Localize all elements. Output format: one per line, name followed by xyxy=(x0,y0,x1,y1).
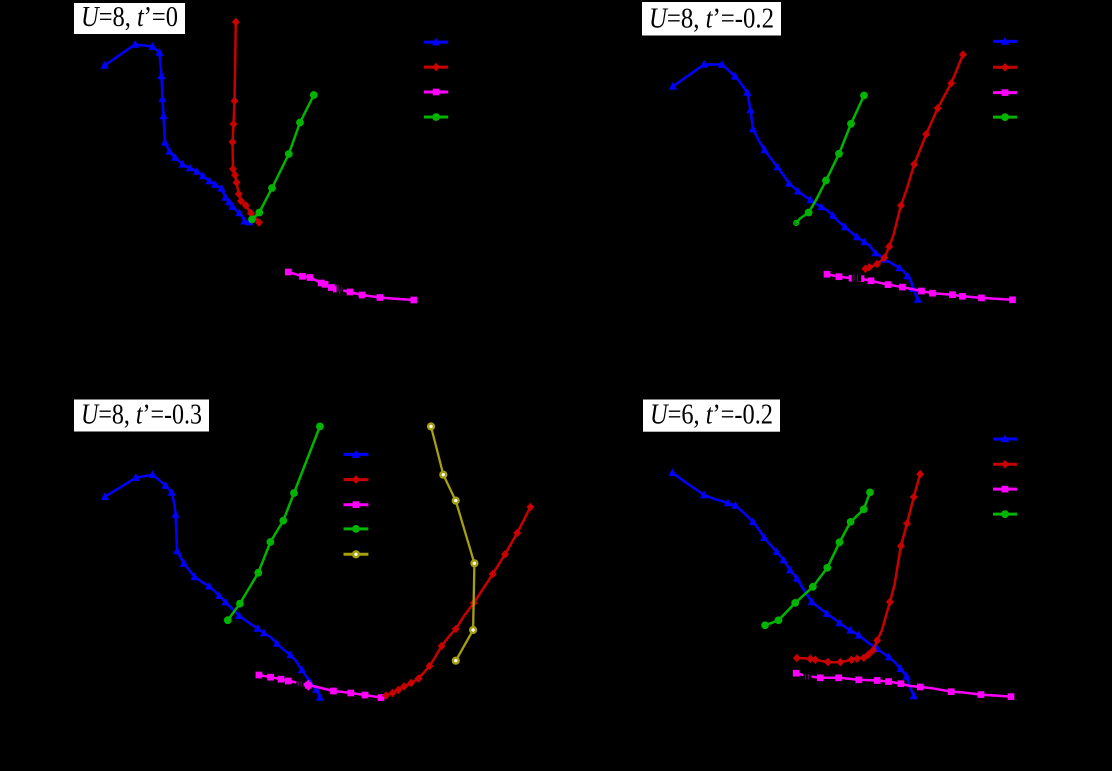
panel4 blue curve xyxy=(673,473,914,696)
panel2 legend magenta xyxy=(993,91,1017,94)
panel3 blue curve xyxy=(105,475,320,698)
panel2 green end marker xyxy=(794,221,799,226)
panel1 magenta curve xyxy=(288,272,414,300)
panel3 green curve xyxy=(228,426,320,620)
panel3 olive curve xyxy=(431,427,474,661)
panel2 black glyph over magenta xyxy=(852,274,861,282)
panel4 red curve xyxy=(797,474,920,662)
panel4 legend blue xyxy=(993,438,1017,441)
panel2 legend blue xyxy=(993,40,1017,43)
panel2 legend red xyxy=(993,66,1017,69)
panel4 legend magenta xyxy=(993,488,1017,491)
panel4 magenta curve xyxy=(796,673,1011,696)
panel2 magenta curve xyxy=(827,274,1013,300)
svg-text:U=8, t’=0: U=8, t’=0 xyxy=(81,2,178,33)
panel4 legend red xyxy=(993,463,1017,466)
panel3 magenta curve xyxy=(259,675,381,698)
panel3 legend magenta xyxy=(344,503,369,506)
panel4 green curve xyxy=(765,492,870,625)
svg-text:U=8, t’=-0.2: U=8, t’=-0.2 xyxy=(649,4,774,35)
panel3 legend red xyxy=(344,478,369,481)
svg-text:U=8, t’=-0.3: U=8, t’=-0.3 xyxy=(81,400,202,431)
panel1 legend green xyxy=(424,116,448,119)
svg-text:U=6, t’=-0.2: U=6, t’=-0.2 xyxy=(650,400,773,431)
panel3 legend olive xyxy=(344,553,369,556)
panel4 black glyph over magenta xyxy=(803,673,811,680)
panel2 red curve xyxy=(865,55,963,269)
panel4 legend green xyxy=(993,513,1017,516)
panel3 legend blue xyxy=(344,453,369,456)
panel3 red curve xyxy=(386,507,530,696)
panel1 label U=8 t=0 xyxy=(74,3,185,34)
panel2 blue curve xyxy=(673,65,918,300)
panel2 label U=8 t=-0.2 xyxy=(642,2,781,36)
panel1 red curve xyxy=(233,22,260,223)
panel1 green curve xyxy=(252,95,314,219)
panel1 legend red xyxy=(424,66,448,69)
panel2 green curve xyxy=(796,96,864,223)
panel1 black glyph over magenta xyxy=(337,286,344,295)
panel3 magenta blob xyxy=(303,680,313,691)
panel4 label U=6 t=-0.2 xyxy=(643,400,780,432)
panel1 legend blue xyxy=(424,41,448,44)
panel3 label U=8 t=-0.3 xyxy=(74,400,209,432)
panel3 legend green xyxy=(344,527,369,530)
panel2 legend green xyxy=(993,116,1017,119)
panel1 legend magenta xyxy=(424,91,448,94)
panel3 black glyphs over magenta xyxy=(296,680,303,687)
panel1 blue dSC curve xyxy=(105,45,250,223)
